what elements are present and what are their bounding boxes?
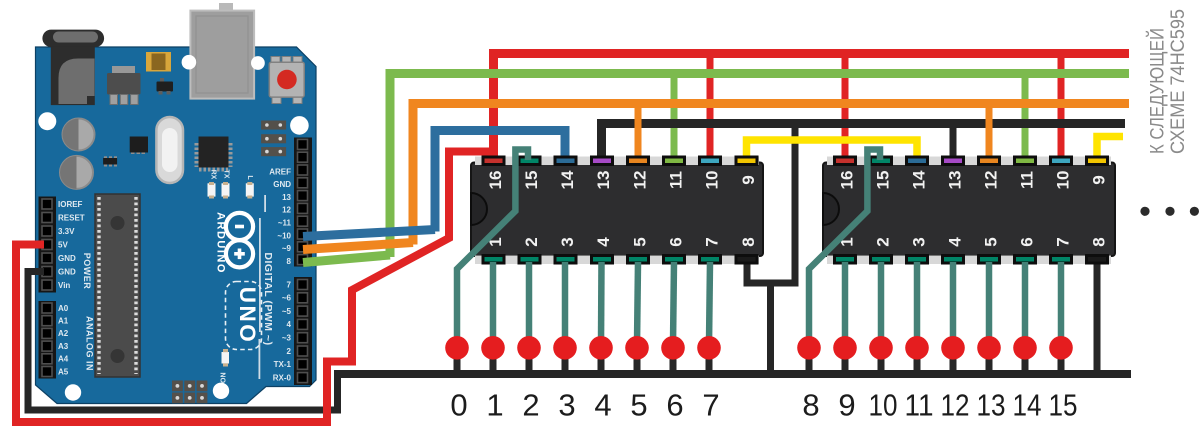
svg-text:ON: ON [221, 373, 228, 384]
ATmega328 U1 (DIP-28) [95, 194, 140, 377]
svg-text:GND: GND [58, 254, 76, 263]
svg-text:A5: A5 [58, 367, 69, 376]
svg-text:0: 0 [450, 388, 467, 423]
wire ground junction drop [767, 280, 774, 374]
board PCB [36, 47, 317, 404]
LED ground stubs row 1 [457, 348, 709, 374]
digital header J1 lower [294, 277, 312, 385]
svg-text:4: 4 [287, 320, 292, 329]
svg-text:10: 10 [1054, 171, 1073, 190]
IC DD2: shift register 74HC595 [823, 157, 1115, 265]
IC2 pin number labels bottom [838, 237, 1109, 247]
IC1 pin number labels top [486, 170, 758, 189]
Arduino infinity logo [226, 213, 253, 268]
LED 10 [869, 336, 893, 360]
svg-text:Vin: Vin [58, 281, 70, 290]
svg-text:~5: ~5 [282, 307, 292, 316]
svg-text:10: 10 [869, 388, 898, 423]
LED number labels 0-7 [450, 388, 719, 423]
mounting hole bottom-left [65, 384, 81, 400]
ATmega16U2 U2 (QFP) [197, 137, 230, 170]
wire red drop to IC2 pin16 [842, 54, 849, 160]
wire blue data net: Arduino pin10 to IC1 pin14 [303, 131, 565, 237]
svg-text:12: 12 [982, 171, 1001, 190]
wire GND from Arduino to bus [28, 272, 338, 411]
LED 15 [1049, 336, 1073, 360]
svg-text:2: 2 [522, 237, 541, 246]
wire red 5V crossing patch over ground wire [323, 401, 331, 423]
svg-text:8: 8 [1090, 237, 1109, 246]
svg-text:7: 7 [702, 388, 719, 423]
svg-text:3: 3 [558, 388, 575, 423]
LED number labels 8-15 [802, 388, 1077, 423]
wires teal IC2 pins 1-7 to LEDs 9-15 [845, 262, 1061, 344]
wire green clock net: Arduino pin8 to SH_CP rail [303, 74, 1129, 263]
wire green drop to IC1 pin11 [671, 74, 678, 160]
silk line digital [264, 195, 266, 212]
svg-text:3: 3 [910, 237, 929, 246]
wire red drop to IC2 pin10 [1058, 54, 1065, 160]
svg-text:A0: A0 [58, 304, 69, 313]
svg-text:4: 4 [594, 388, 611, 423]
ground bus under LEDs [334, 370, 1131, 378]
analog header J3 [39, 301, 57, 379]
electrolytic capacitor C2 [60, 156, 93, 189]
svg-text:6: 6 [667, 237, 686, 246]
reset button [269, 57, 304, 104]
svg-text:13: 13 [946, 171, 965, 190]
svg-text:TX: TX [223, 170, 230, 179]
LED TX [222, 182, 230, 199]
LED 7 [697, 336, 721, 360]
IC2 body [823, 163, 1115, 257]
IC1 notch [471, 193, 487, 225]
mounting hole bottom-mid [213, 383, 229, 399]
svg-text:7: 7 [1054, 237, 1073, 246]
wire green drop to IC2 pin11 [1022, 74, 1029, 160]
svg-text:A1: A1 [58, 317, 69, 326]
wire yellow serial out IC2 pin9 to next circuit [1097, 137, 1123, 160]
svg-text:5: 5 [631, 237, 650, 246]
wire IC2 pin8 to bus [1094, 260, 1101, 374]
white pad left of USB [182, 55, 197, 70]
svg-text:СХЕМЕ 74HC595: СХЕМЕ 74HC595 [1168, 9, 1189, 154]
wire OE drop to IC2 pin13 [950, 124, 957, 160]
LED 12 [941, 336, 965, 360]
LED 6 [661, 336, 685, 360]
ICSP header (USB) 2x3 [261, 121, 286, 157]
IC1 pin number labels bottom [486, 237, 758, 247]
svg-text:A4: A4 [58, 355, 69, 364]
IC1 body [471, 163, 763, 257]
svg-text:11: 11 [667, 171, 686, 189]
LED 5 [625, 336, 649, 360]
svg-text:L: L [246, 175, 253, 180]
LED row 1 (LEDs 0-7) [445, 336, 721, 360]
IC2 notch [823, 193, 839, 225]
svg-text:GND: GND [273, 180, 291, 189]
wire orange drop to IC1 pin12 [635, 104, 642, 160]
svg-text:5V: 5V [58, 240, 68, 249]
wire orange latch net: Arduino pin9 to ST_CP rail [303, 104, 1129, 250]
svg-text:UNO: UNO [235, 287, 260, 345]
silk line serial [259, 339, 261, 379]
wire black ground net [28, 124, 1131, 411]
mounting hole top-right [290, 116, 309, 135]
svg-text:4: 4 [946, 237, 965, 247]
svg-text:AREF: AREF [269, 167, 291, 176]
LED 8 [797, 336, 821, 360]
wires teal IC1 pins 1-7 to LEDs 1-7 [493, 262, 710, 344]
power jack [42, 30, 104, 106]
svg-text:2: 2 [287, 347, 292, 356]
svg-text:ANALOG IN: ANALOG IN [85, 316, 95, 371]
IC1 leg strips [475, 157, 759, 166]
svg-text:13: 13 [282, 193, 291, 202]
svg-text:11: 11 [905, 388, 934, 423]
silk line logo separator [259, 218, 261, 332]
svg-text:DIGITAL (PWM ~): DIGITAL (PWM ~) [262, 252, 274, 345]
IC1 bottom pads pins 1..8 [483, 256, 757, 264]
svg-text:12: 12 [631, 171, 650, 190]
svg-text:12: 12 [941, 388, 970, 423]
svg-text:POWER: POWER [82, 253, 92, 290]
wire orange drop to IC2 pin12 [986, 104, 993, 160]
svg-text:GND: GND [58, 267, 76, 276]
Arduino UNO board A1 [36, 3, 317, 404]
svg-text:16: 16 [838, 171, 857, 190]
svg-text:TX-1: TX-1 [274, 360, 292, 369]
IC2 pin number labels top [838, 170, 1109, 189]
LED 11 [905, 336, 929, 360]
LED 3 [553, 336, 577, 360]
svg-text:~11: ~11 [278, 219, 292, 228]
svg-text:6: 6 [666, 388, 683, 423]
LED L [246, 182, 254, 199]
IC2 top pads pins 16..9 [835, 157, 1108, 165]
LED 2 [517, 336, 541, 360]
power header labels [58, 200, 85, 290]
voltage regulator [107, 66, 141, 105]
svg-text:6: 6 [1018, 237, 1037, 246]
svg-text:~6: ~6 [282, 294, 292, 303]
crystal oscillator Y1 [156, 117, 183, 183]
svg-text:14: 14 [1013, 388, 1042, 423]
svg-text:8: 8 [739, 237, 758, 246]
svg-text:13: 13 [594, 171, 613, 190]
svg-text:7: 7 [287, 280, 292, 289]
svg-text:15: 15 [874, 171, 893, 190]
wire red drop to IC1 pin10 [707, 54, 714, 160]
svg-text:12: 12 [282, 206, 291, 215]
IC DD1: shift register 74HC595 [471, 157, 763, 265]
svg-text:~10: ~10 [277, 231, 291, 240]
svg-text:2: 2 [522, 388, 539, 423]
LED RX [208, 182, 216, 199]
wire red 5V net: Arduino 5V to VCC rail [16, 54, 1129, 423]
svg-text:5: 5 [630, 388, 647, 423]
svg-text:16: 16 [486, 171, 505, 190]
SMD transistor T1 [157, 78, 174, 95]
white pad right of USB [251, 56, 265, 70]
svg-text:8: 8 [802, 388, 819, 423]
LED ground stubs row 2 [809, 348, 1061, 374]
svg-text:1: 1 [486, 388, 503, 423]
LED 0 [445, 336, 469, 360]
svg-text:RESET: RESET [58, 213, 85, 222]
LED 13 [977, 336, 1001, 360]
svg-text:13: 13 [977, 388, 1006, 423]
digital header J1 upper [294, 138, 312, 267]
SMD component U4 (6-pin) [103, 156, 117, 166]
svg-text:RX-0: RX-0 [273, 373, 292, 382]
svg-text:14: 14 [910, 170, 929, 189]
svg-text:7: 7 [703, 237, 722, 246]
svg-text:10: 10 [703, 171, 722, 190]
digital header labels [269, 167, 291, 382]
mounting hole top-left [38, 112, 56, 130]
wire yellow serial link IC1 pin9 to IC2 pin14 [747, 140, 918, 159]
svg-text:15: 15 [1049, 388, 1078, 423]
wire OE line (pin13 rail) [602, 124, 1126, 160]
svg-text:9: 9 [838, 388, 855, 423]
node label: to next 74HC595 circuit [1147, 9, 1189, 154]
svg-text:К СЛЕДУЮЩЕЙ: К СЛЕДУЮЩЕЙ [1147, 28, 1169, 154]
IC2 leg strips [827, 157, 1111, 166]
svg-text:11: 11 [1018, 171, 1037, 189]
analog header labels [58, 304, 69, 377]
LED row 2 (LEDs 8-15) [797, 336, 1073, 360]
svg-text:IOREF: IOREF [58, 200, 83, 209]
svg-text:A2: A2 [58, 329, 69, 338]
svg-text:RX: RX [210, 170, 217, 180]
wire IC1 pin8 to ground [747, 124, 795, 284]
svg-text:3: 3 [558, 237, 577, 246]
LED ON [222, 349, 230, 367]
USB connector [190, 3, 254, 99]
LED 14 [1013, 336, 1037, 360]
svg-text:2: 2 [874, 237, 893, 246]
svg-text:A3: A3 [58, 342, 69, 351]
svg-text:14: 14 [558, 170, 577, 189]
svg-text:~3: ~3 [282, 334, 292, 343]
LED 9 [833, 336, 857, 360]
ICSP header (main) 3x2 [172, 381, 207, 404]
svg-text:5: 5 [982, 237, 1001, 246]
svg-text:15: 15 [522, 171, 541, 190]
svg-text:4: 4 [594, 237, 613, 247]
svg-text:9: 9 [739, 175, 758, 184]
UNO label [226, 282, 262, 350]
LED 4 [589, 336, 613, 360]
SMD IC U3 (8-pin) [130, 137, 148, 155]
ellipsis dots to next stage [1140, 207, 1199, 216]
IC2 bottom pads pins 1..8 [835, 256, 1108, 264]
IC1 top pads pins 16..9 [483, 157, 757, 165]
svg-text:8: 8 [287, 257, 292, 266]
wire teal IC2 pin15 to LED8 [809, 150, 880, 345]
LED 1 [481, 336, 505, 360]
polyfuse F1 [146, 52, 171, 72]
electrolytic capacitor C1 [63, 119, 95, 151]
power header J2 [39, 197, 57, 293]
svg-text:~9: ~9 [282, 244, 292, 253]
svg-text:3.3V: 3.3V [58, 227, 75, 236]
wire teal IC1 pin15 to LED0 [457, 150, 528, 345]
svg-text:9: 9 [1090, 175, 1109, 184]
